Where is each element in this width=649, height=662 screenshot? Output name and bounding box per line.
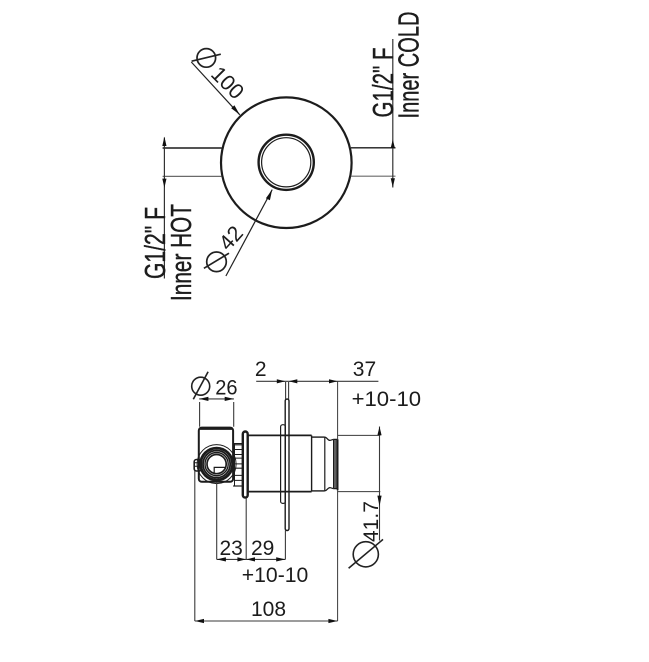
svg-text:2: 2: [255, 358, 267, 381]
svg-text:Inner COLD: Inner COLD: [394, 12, 426, 119]
svg-text:Inner HOT: Inner HOT: [166, 204, 198, 301]
svg-text:+10-10: +10-10: [242, 564, 308, 587]
svg-text:+10-10: +10-10: [352, 388, 422, 411]
svg-text:41.7: 41.7: [360, 501, 383, 542]
svg-text:37: 37: [353, 358, 376, 381]
svg-text:23: 23: [220, 537, 243, 560]
svg-text:108: 108: [251, 598, 286, 621]
svg-text:26: 26: [215, 377, 237, 400]
svg-text:29: 29: [251, 537, 274, 560]
